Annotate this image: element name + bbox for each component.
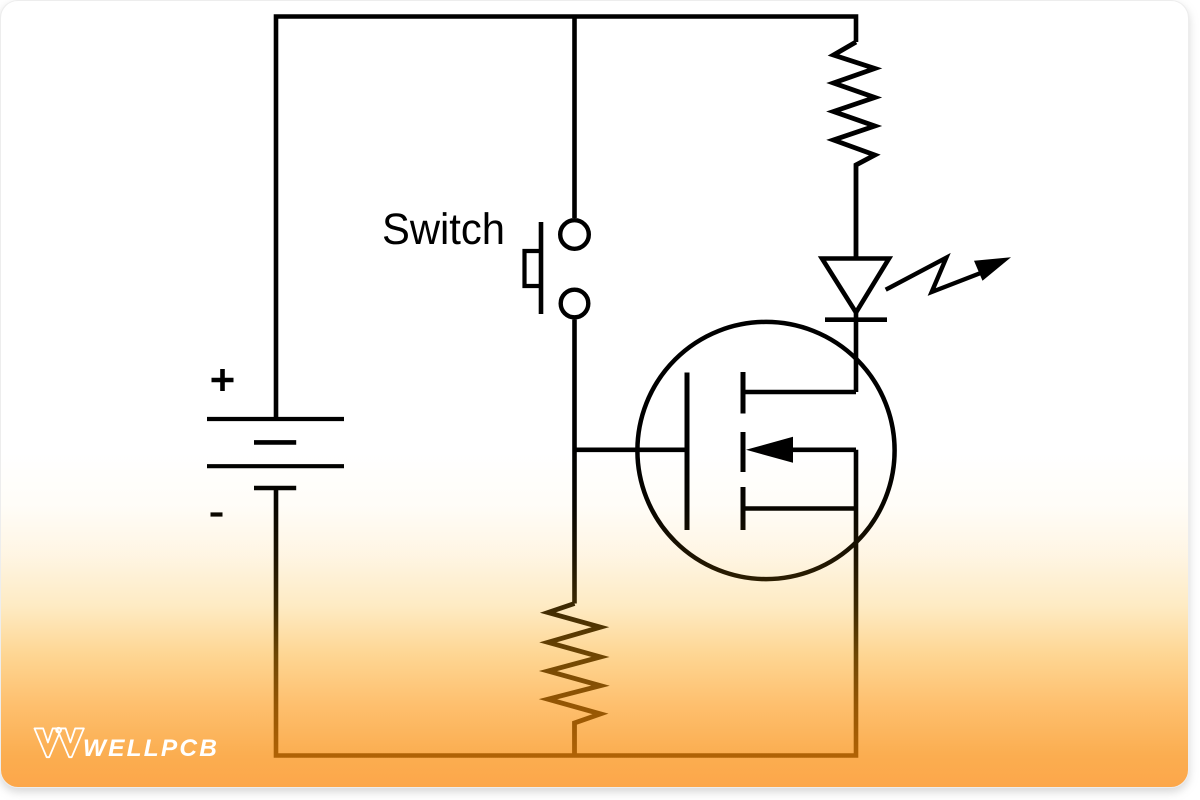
svg-text:WELLPCB: WELLPCB <box>83 735 219 762</box>
